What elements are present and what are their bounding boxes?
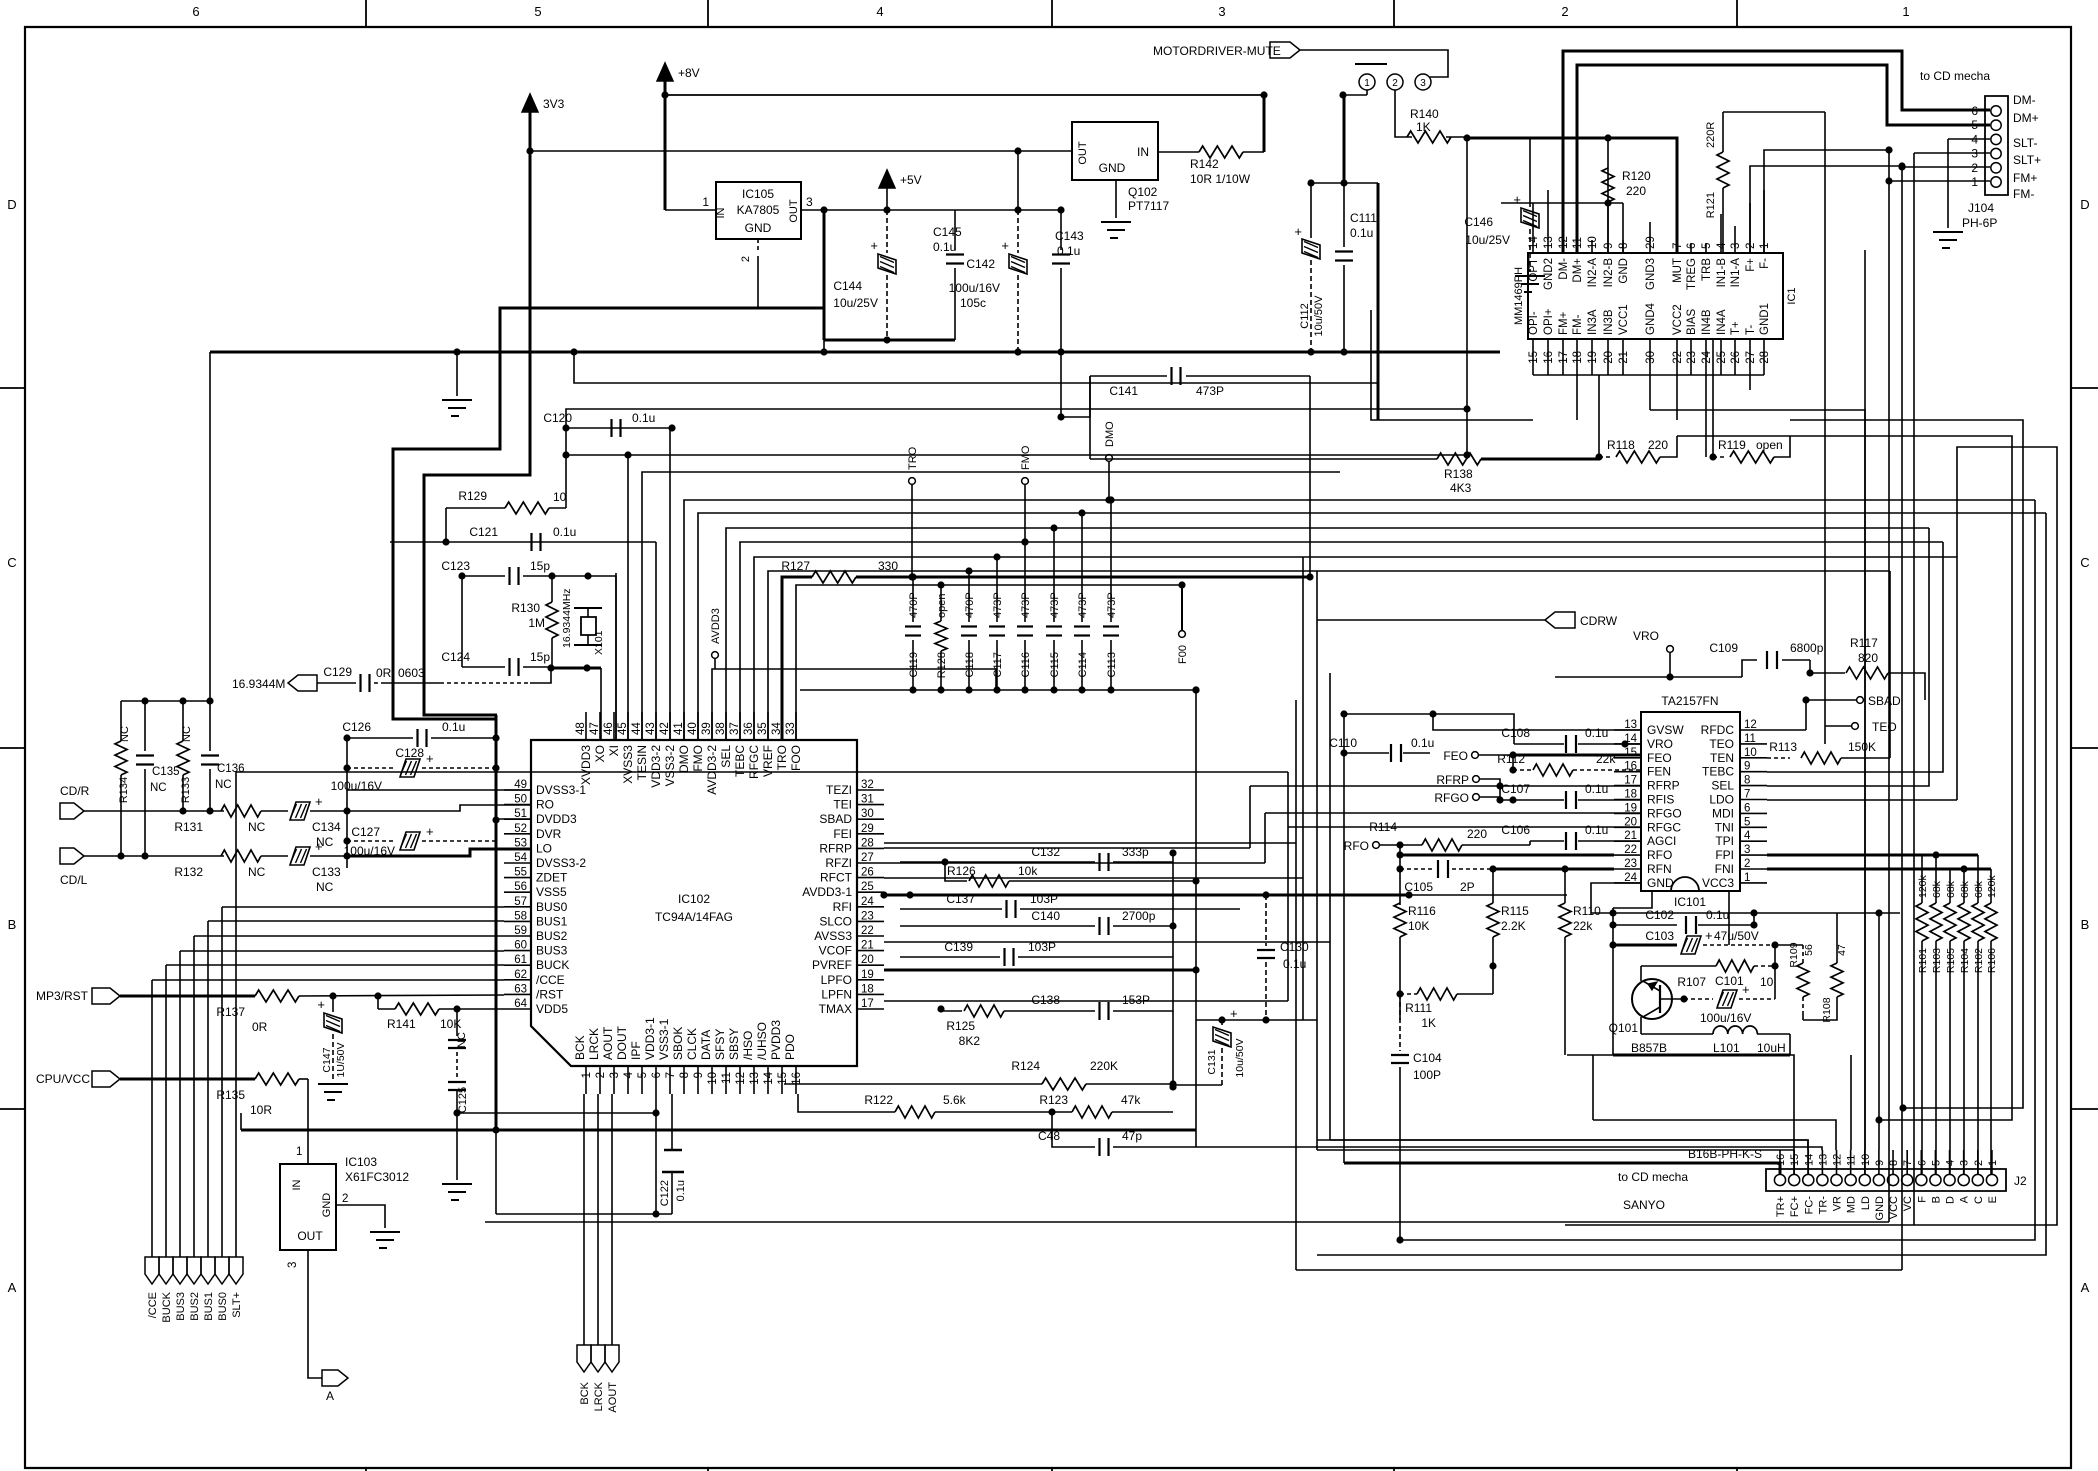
svg-text:3: 3 [1218,4,1225,19]
svg-text:R134: R134 [118,777,130,803]
svg-text:LD: LD [1860,1196,1872,1210]
svg-text:VSS5: VSS5 [536,885,567,899]
wire LRCK [597,1094,599,1345]
svg-text:VR: VR [1832,1196,1844,1211]
wire VREF bus bend to R113 [1889,571,1891,758]
svg-text:47p: 47p [1122,1129,1142,1143]
svg-text:24: 24 [1701,350,1713,363]
svg-text:220K: 220K [1090,1059,1118,1073]
svg-text:47: 47 [589,722,601,735]
svg-text:4: 4 [623,1071,635,1078]
capacitor C144 electrolytic [886,210,888,253]
svg-text:R109: R109 [1788,942,1800,967]
connector J2 B16B-PH-K-S box [1766,1169,2006,1191]
svg-text:FM-: FM- [2013,187,2034,201]
svg-text:3: 3 [1420,78,1426,89]
capacitor C140 2700p [900,925,1095,927]
svg-text:C129: C129 [323,665,352,679]
svg-text:IC105: IC105 [742,187,774,201]
svg-text:+5V: +5V [900,173,922,187]
wire mute flag to circle3 [1300,50,1448,77]
svg-text:R121: R121 [1705,192,1717,218]
svg-text:2700p: 2700p [1122,909,1156,923]
svg-text:FC-: FC- [1803,1196,1815,1215]
wire bottom route y1222 [485,1221,1889,1223]
svg-text:X61FC3012: X61FC3012 [345,1170,409,1184]
node RFO [1373,842,1380,849]
svg-text:10uH: 10uH [1757,1041,1786,1055]
svg-text:GND: GND [1874,1196,1886,1221]
svg-text:23: 23 [1686,351,1698,364]
svg-text:0.1u: 0.1u [1411,736,1434,750]
svg-text:31: 31 [861,794,874,806]
wire RFGC bus to bundle [1302,556,1304,558]
svg-text:+: + [870,238,878,253]
resistor R131 NC [221,805,261,817]
svg-text:21: 21 [1618,351,1630,364]
svg-text:C147: C147 [321,1047,333,1072]
wire 3V3 vertical path [424,112,530,715]
resistor R120 vertical [1602,168,1614,202]
svg-text:to CD mecha: to CD mecha [1920,69,1990,83]
svg-text:SLT-: SLT- [2013,136,2037,150]
svg-text:FEO: FEO [1443,749,1468,763]
svg-text:10u/25V: 10u/25V [1465,233,1510,247]
wire RFGC row pin20 [1288,826,1641,828]
resistor R140 [1395,90,1412,137]
svg-text:TEN: TEN [1710,751,1734,765]
svg-text:PH-6P: PH-6P [1962,216,1997,230]
svg-text:XI: XI [607,745,621,756]
svg-text:B: B [2081,917,2090,932]
flag BUS3 [173,1257,187,1284]
wire CPU/VCC line [120,1078,255,1081]
wire J104 pin1 [1889,180,1990,182]
svg-text:+: + [1230,1006,1238,1021]
capacitor C105 2P [1400,868,1434,870]
capacitor C110 [1344,752,1389,754]
wire heavy x496 vertical [495,715,498,1130]
flag BCK [577,1345,591,1372]
wire RFRP row pin17 [1250,785,1641,787]
svg-text:C125: C125 [457,1087,469,1113]
svg-text:C142: C142 [966,257,995,271]
capacitor C131 electrolytic vertical [1221,1020,1223,1026]
resistor R116 10K vertical [1394,903,1406,937]
wire C102 right drop [1753,913,1755,925]
flag /CCE [145,1257,159,1284]
svg-text:R113: R113 [1769,740,1797,754]
svg-text:A: A [326,1389,334,1403]
node TEO [1852,723,1859,730]
svg-text:10: 10 [1860,1154,1872,1166]
svg-text:D: D [1945,1196,1957,1204]
wire J2 pin15 staircase [1567,1055,1794,1150]
svg-text:0.1u: 0.1u [1706,908,1729,922]
svg-text:TR-: TR- [1817,1196,1829,1215]
capacitor C135 NC vertical [144,701,146,751]
svg-text:IN2-A: IN2-A [1587,258,1599,288]
svg-text:FEN: FEN [1647,765,1671,779]
op-amp IC1 MM1469PH box [1528,253,1783,339]
capacitor C126 [347,737,413,739]
svg-text:16: 16 [1624,761,1637,773]
wire bar over circle1 [1355,63,1387,65]
svg-text:+: + [317,997,325,1012]
svg-text:GND: GND [1618,258,1630,284]
wire IC1 area verticals [1712,340,1714,457]
IC102 top pins [585,712,587,740]
wire DM- route IC1 pin12 to J104 pin6 [1563,51,1990,253]
svg-text:T-: T- [1745,325,1757,335]
svg-text:R124: R124 [1011,1059,1040,1073]
svg-text:B: B [8,917,17,932]
capacitor C141 [1090,375,1167,377]
wire OUT pin3 drop [823,210,826,340]
svg-text:6: 6 [1686,243,1698,249]
svg-text:473P: 473P [1020,592,1032,618]
resistor R128 open vertical [935,621,947,651]
svg-text:TEZI: TEZI [826,783,852,797]
wire right bundle vertical 1902 down [1901,166,1903,1270]
J2 pin stubs [1779,1150,1781,1174]
svg-text:TEI: TEI [833,798,852,812]
svg-text:C: C [2080,555,2089,570]
svg-text:KA7805: KA7805 [737,203,780,217]
svg-text:R102: R102 [1973,948,1985,973]
svg-text:R118: R118 [1607,438,1635,452]
wire rows x1288 down [884,1000,1288,1002]
svg-text:DATA: DATA [699,1030,713,1060]
svg-text:18: 18 [1624,789,1637,801]
capacitor C146 electrolytic [1529,138,1531,207]
svg-text:FM+: FM+ [1558,311,1570,335]
svg-text:GND: GND [1099,161,1126,175]
svg-text:FOO: FOO [789,745,803,771]
svg-text:10k: 10k [1018,864,1038,878]
svg-text:2P: 2P [1460,880,1475,894]
svg-text:C107: C107 [1501,782,1530,796]
ground C147 [318,1083,348,1085]
svg-text:56: 56 [514,881,527,893]
svg-text:OUT: OUT [788,199,800,223]
IC1 bottom pin stubs [1532,339,1534,375]
svg-text:25: 25 [861,881,874,893]
wire right bundle vertical 1914 down [1913,153,1915,1225]
svg-text:1U/50V: 1U/50V [335,1042,347,1077]
wire AOUT [611,1094,613,1345]
svg-text:A: A [1959,1195,1971,1203]
resistor R126 10k [945,862,967,881]
svg-text:9: 9 [1603,243,1615,249]
svg-text:RFDC: RFDC [1701,723,1735,737]
svg-text:0R: 0R [252,1020,268,1034]
wire pin12 RFDC right [1767,729,1806,731]
svg-text:RFIS: RFIS [1647,793,1674,807]
wire bus FOO pin33 [796,585,1182,740]
svg-text:2: 2 [1392,78,1398,89]
wire C130 C131 join rail [1196,1019,1317,1021]
flag BUS2 [187,1257,201,1284]
svg-text:3: 3 [287,1262,299,1268]
wire left bus x347 [346,738,348,868]
svg-text:R142: R142 [1190,157,1219,171]
svg-text:VCC1: VCC1 [1618,304,1630,335]
svg-text:25: 25 [1716,351,1728,364]
wire bus y1150 to J2 pin15 [1317,1150,1794,1174]
svg-text:TR+: TR+ [1775,1196,1787,1217]
svg-text:GND2: GND2 [1543,258,1555,290]
svg-text:R104: R104 [1959,948,1971,973]
IC1 top pin stubs [1532,203,1534,253]
IC102 right pins [857,789,884,791]
svg-text:D: D [7,197,16,212]
svg-text:RO: RO [536,798,554,812]
svg-text:0.1u: 0.1u [442,720,465,734]
svg-text:C143: C143 [1055,229,1084,243]
svg-text:1K: 1K [1416,120,1431,134]
svg-text:RFRP: RFRP [1436,773,1469,787]
svg-text:VDD3-1: VDD3-1 [643,1017,657,1060]
svg-text:0R: 0R [376,666,392,680]
wire gnd return y308 [393,308,824,719]
svg-text:105c: 105c [960,296,986,310]
wire AGCI row pin21 [1529,841,1531,845]
svg-text:BUS2: BUS2 [536,929,568,943]
svg-text:R133: R133 [180,777,192,803]
svg-text:10: 10 [707,1072,719,1085]
svg-text:6: 6 [1744,802,1750,814]
svg-text:C104: C104 [1413,1051,1442,1065]
svg-text:XVSS3: XVSS3 [621,745,635,784]
svg-text:24: 24 [861,896,874,908]
svg-text:TRO: TRO [775,745,789,770]
svg-text:FMO: FMO [1020,445,1032,470]
svg-text:FNI: FNI [1715,862,1734,876]
resistor R111 1K [1400,993,1417,995]
svg-text:21: 21 [861,940,874,952]
svg-text:open: open [936,594,948,618]
svg-text:+: + [1001,238,1009,253]
svg-text:6: 6 [192,4,199,19]
wire MP3/RST line [120,995,255,998]
svg-text:RFGC: RFGC [747,745,761,779]
svg-text:19: 19 [861,969,874,981]
wire CDRW line [1317,619,1545,621]
resistor R130 1M vertical [546,602,558,638]
wire pin30 down [1649,409,1651,411]
svg-text:SLCO: SLCO [819,914,852,928]
node DMO [1106,455,1113,462]
svg-text:R129: R129 [458,489,487,503]
svg-text:11: 11 [721,1072,733,1084]
svg-text:C108: C108 [1501,726,1530,740]
node RFRP [1473,776,1480,783]
svg-text:GND3: GND3 [1645,258,1657,290]
resistor R110 22k vertical [1559,903,1571,937]
svg-text:PVDD3: PVDD3 [769,1020,783,1060]
svg-text:30: 30 [1645,351,1657,364]
svg-text:7: 7 [1744,789,1750,801]
svg-text:LO: LO [536,841,552,855]
wire pin49 DVSS3-1 [346,738,348,790]
svg-text:12: 12 [1832,1154,1844,1166]
wire Q102 GND lead [1115,180,1117,218]
resistor R104 68k vertical [1958,903,1970,941]
svg-text:BIAS: BIAS [1686,308,1698,335]
capacitor C108 [1344,714,1514,744]
svg-text:VDD3-2: VDD3-2 [649,745,663,788]
svg-text:1: 1 [296,1146,302,1158]
svg-text:0603: 0603 [398,666,425,680]
svg-text:MM1469PH: MM1469PH [1513,267,1525,325]
svg-text:54: 54 [514,852,527,864]
wire BUCK vertical [165,965,167,1257]
node FEO [1472,752,1479,759]
wire right bundle vertical 1889 down [1888,150,1890,1222]
capacitor C129 [317,682,356,684]
svg-text:15p: 15p [530,559,550,573]
svg-text:FEI: FEI [833,827,852,841]
resistor R101 120k vertical [1916,903,1928,941]
svg-text:IN1-A: IN1-A [1730,258,1742,288]
resistor R141 10K [377,996,379,1009]
svg-text:15: 15 [1789,1154,1801,1166]
svg-text:+: + [315,794,323,809]
svg-text:473P: 473P [1196,384,1224,398]
svg-text:100u/16V: 100u/16V [949,281,1000,295]
svg-text:/RST: /RST [536,987,564,1001]
wire IC1 left side rail [1466,138,1468,459]
wire SBAD drop [1805,700,1807,730]
svg-text:C134: C134 [312,820,341,834]
svg-text:/CCE: /CCE [536,973,565,987]
wire J2 pin12 [1593,1120,1836,1150]
wire R121 top to TEO vertical [1723,111,1825,113]
svg-text:C102: C102 [1645,908,1674,922]
wire pin18 RFIS [1499,786,1501,800]
svg-text:58: 58 [514,910,527,922]
svg-text:R120: R120 [1622,169,1651,183]
wire TEBC bus bend x1943 [1767,542,1943,772]
svg-text:C146: C146 [1464,215,1493,229]
svg-text:24: 24 [1624,872,1637,884]
svg-text:22k: 22k [1573,919,1593,933]
capacitor C138 153P [1098,1002,1100,1020]
svg-text:D: D [2080,197,2089,212]
svg-text:MDI: MDI [1712,806,1734,820]
wire J2 pin10 vertical long [1864,250,1866,1150]
svg-text:28: 28 [1759,351,1771,364]
wire +5V stem [886,188,888,210]
wire pin25 AVDD3-1 junctions [880,891,887,898]
wire bus FMO pin40 [698,513,2046,740]
svg-text:15: 15 [1528,351,1540,364]
svg-text:X101: X101 [593,630,605,655]
svg-text:BUCK: BUCK [536,958,569,972]
svg-text:PDO: PDO [783,1034,797,1060]
svg-text:IC101: IC101 [1674,895,1706,909]
svg-text:IC102: IC102 [678,892,710,906]
svg-text:C109: C109 [1709,641,1738,655]
svg-text:BUS3: BUS3 [175,1292,187,1321]
wire C133 to pin53 [347,849,531,856]
wire J104 pin2 [1902,166,1990,168]
wire R129 drop [445,508,447,542]
wire BCK [583,1094,585,1345]
svg-text:VC: VC [1902,1196,1914,1211]
capacitor C117 473P [996,557,998,622]
inductor L101 10uH [1713,1026,1757,1034]
wire VRO row [1555,676,1742,678]
resistor R115 2.2K vertical [1487,903,1499,937]
svg-text:RFO: RFO [1647,848,1672,862]
svg-text:SBAD: SBAD [819,812,852,826]
resistor R119 open [1709,453,1716,460]
svg-text:CDRW: CDRW [1580,614,1618,628]
wire C112 C111 top rail [1311,182,1378,184]
svg-text:C112: C112 [1299,303,1311,328]
svg-text:R108: R108 [1821,997,1833,1022]
svg-text:FEO: FEO [1647,751,1672,765]
wire pin45 up rail [627,455,629,740]
svg-text:FMO: FMO [691,745,705,772]
svg-text:LPFN: LPFN [821,987,852,1001]
svg-text:OPI+: OPI+ [1543,308,1555,335]
svg-text:R122: R122 [864,1093,893,1107]
wire J104 pin3 [1914,152,1990,154]
svg-text:VCC3: VCC3 [1702,876,1734,890]
svg-text:C144: C144 [833,279,862,293]
svg-text:IN1-B: IN1-B [1716,258,1728,288]
wire IC105 pin2 stub [757,239,759,252]
wire pin43 down from C121 [655,542,657,740]
svg-text:333p: 333p [1122,845,1149,859]
wire pin51 DVDD3 [496,818,531,820]
wire /CCE vertical [151,980,153,1257]
ground C146 [1515,275,1545,277]
svg-text:14: 14 [1803,1154,1815,1166]
svg-text:CD/R: CD/R [60,784,90,798]
capacitor C142 electrolytic [1017,151,1019,210]
capacitor C121 [390,541,656,543]
transistor Q102 PT7117 box [1072,122,1158,180]
wire Q101 cluster bottom [1613,1054,1790,1057]
svg-text:20: 20 [1603,351,1615,364]
svg-text:TMAX: TMAX [819,1002,852,1016]
svg-text:2: 2 [595,1072,607,1078]
svg-text:150K: 150K [1848,740,1876,754]
svg-text:13: 13 [1543,236,1555,249]
svg-text:OUT: OUT [1077,141,1089,165]
wire SLT+ vertical [235,772,237,1257]
capacitor C103 electrolytic 47u/50V [1613,944,1677,947]
svg-text:C132: C132 [1031,845,1060,859]
svg-text:1M: 1M [528,616,545,630]
svg-text:5: 5 [1971,118,1978,132]
svg-text:MOTORDRIVER-MUTE: MOTORDRIVER-MUTE [1153,44,1281,58]
svg-text:R132: R132 [174,865,203,879]
svg-text:C: C [1973,1196,1985,1204]
wire FEO row pin15 [1513,754,1641,757]
svg-text:55: 55 [514,867,527,879]
svg-text:120k: 120k [1917,874,1929,898]
svg-text:DM-: DM- [2013,93,2036,107]
svg-text:13: 13 [1817,1154,1829,1166]
wire R135 to IC103 IN [307,1079,309,1164]
node circle 2 [1387,74,1403,90]
ground IC103 [370,1231,400,1233]
